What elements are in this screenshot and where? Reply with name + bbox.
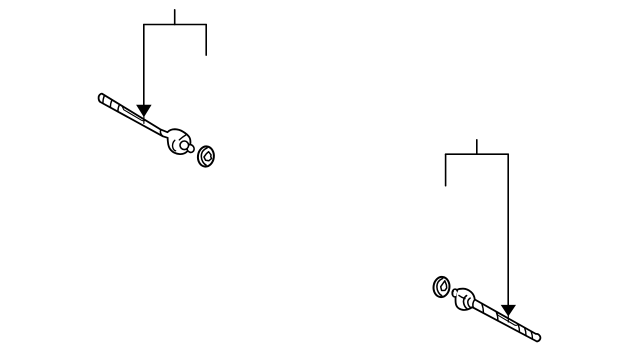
rod 1 end arc <box>160 130 163 137</box>
callout bracket 2 left drop line <box>445 154 447 186</box>
rod 2 highlight sliver <box>497 312 518 325</box>
tie rod 1 outline (shaft + neck + housing) <box>99 94 191 154</box>
rod 2 thread line d <box>518 324 519 332</box>
washer 2 tri-lobe hole <box>441 281 447 291</box>
housing 1 crease <box>173 140 176 151</box>
callout bracket 1 top tick <box>174 10 176 25</box>
rod 1 thread line b <box>110 100 112 108</box>
housing 2 collar outer arc <box>464 296 467 309</box>
tie rod 2 outline (housing + shaft) <box>456 289 541 342</box>
housing 2 knob cap face <box>452 291 455 294</box>
housing 1 stub boss <box>180 141 189 150</box>
rod 1 thread line a <box>103 95 105 103</box>
rod 1 highlight sliver <box>122 107 145 121</box>
housing 1 face edge <box>179 135 186 140</box>
arrowhead 2 <box>501 305 516 317</box>
washer 2 outer ring <box>432 276 450 298</box>
callout bracket 1 right drop line <box>205 25 207 56</box>
rod 2 thread line b <box>496 312 498 321</box>
rod 2 end arc <box>473 300 475 308</box>
washer 1 face crescent <box>201 148 207 165</box>
rod 2 thread line e <box>525 328 526 336</box>
leader tip line 2 <box>507 315 509 323</box>
leader line 2 <box>507 154 509 306</box>
housing 2 stub knob <box>452 289 457 297</box>
callout bracket 2 top tick <box>476 140 478 154</box>
rod 1 thread line c <box>118 104 120 111</box>
callout bracket 1 horizontal bar <box>144 24 206 26</box>
rod 2 thread line a <box>482 303 484 313</box>
arrowhead 1 <box>136 105 152 117</box>
housing 1 stub end cap <box>185 143 195 153</box>
rod 2 thread line f <box>531 331 532 339</box>
washer 1 outer ring <box>197 146 215 168</box>
washer 1 tri-lobe hole <box>204 152 212 161</box>
leader tip line 1 <box>143 115 145 123</box>
callout bracket 2 horizontal bar <box>446 153 509 155</box>
housing 2 crease <box>459 295 465 298</box>
leader line 1 <box>143 25 145 107</box>
housing 2 collar inner arc <box>468 298 471 308</box>
washer 2 face crescent <box>437 278 443 295</box>
